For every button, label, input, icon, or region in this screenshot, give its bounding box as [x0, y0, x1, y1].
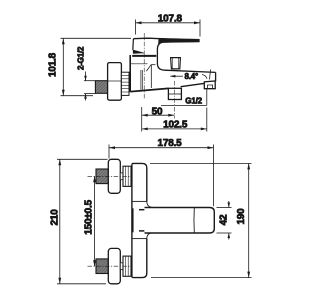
- handle lever top edge: [133, 38, 199, 40]
- svg-text:150±0.5: 150±0.5: [83, 199, 94, 234]
- top union: escutcheon: [108, 159, 120, 193]
- handle grip bottom wedge: [133, 50, 144, 54]
- diverter pull knob on spout top: [171, 58, 181, 69]
- dimension 101.8: [48, 38, 132, 95]
- dimension 190: [150, 163, 252, 277]
- shower outlet knob below body: [168, 88, 181, 99]
- svg-text:G1/2: G1/2: [185, 96, 202, 105]
- spout tip and aerator: [204, 72, 215, 88]
- dimension 102.5: [142, 108, 207, 132]
- wall nipple (hatched) side view: [95, 81, 107, 94]
- body collar under handle: [132, 55, 156, 57]
- angle callout 8.4deg: [170, 70, 211, 82]
- label G1/2 (spout outlet): [161, 89, 207, 105]
- dimension 107.8: [136, 14, 201, 37]
- svg-text:8.4°: 8.4°: [185, 72, 199, 81]
- dimension 178.5: [109, 138, 214, 206]
- knurled adjuster: [121, 72, 129, 95]
- center line through knob: [173, 81, 175, 119]
- handle grip left edge: [132, 39, 135, 50]
- handle blade (filled): [158, 39, 199, 45]
- label 2-G1/2: [77, 46, 96, 101]
- bottom union: hex nipple (hatched): [96, 259, 108, 274]
- center line (cartridge axis): [143, 33, 145, 99]
- body column (plan view): [132, 163, 147, 277]
- top union: hex nipple (hatched): [96, 169, 108, 184]
- escutcheon disc side view: [108, 63, 122, 101]
- column/bar fillets: [132, 201, 153, 238]
- dimension 50: [142, 106, 175, 131]
- handle blade underside curving into body front face: [157, 42, 215, 73]
- body underside: [131, 88, 169, 91]
- svg-text:101.8: 101.8: [48, 52, 59, 77]
- faucet body back face: [129, 55, 131, 92]
- dimension 42: [217, 201, 232, 240]
- svg-text:2-G1/2: 2-G1/2: [77, 46, 86, 70]
- svg-text:210: 210: [49, 209, 60, 226]
- body bar / spout (plan view): [133, 208, 214, 234]
- svg-text:50: 50: [152, 106, 163, 117]
- dimension 150+-0.5: [83, 176, 96, 266]
- dimension 210: [49, 159, 107, 283]
- top union: center line: [88, 175, 133, 177]
- svg-text:190: 190: [236, 208, 247, 225]
- svg-text:42: 42: [219, 214, 230, 225]
- bottom union: center line: [88, 265, 133, 267]
- bottom union: escutcheon: [108, 248, 120, 283]
- body block (back section): [131, 64, 156, 90]
- bottom union: nut: [120, 256, 131, 276]
- top union: nut: [120, 166, 131, 186]
